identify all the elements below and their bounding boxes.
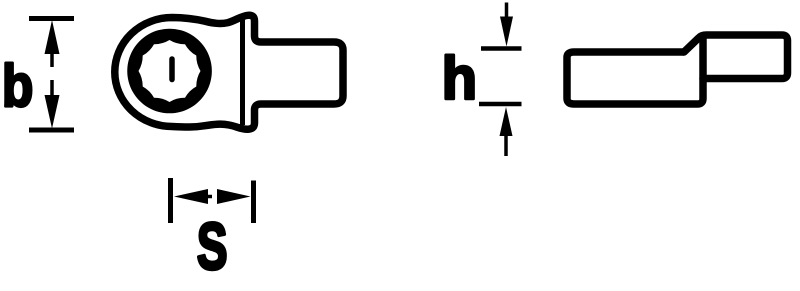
plate face line bbox=[240, 16, 245, 125]
side view ring end body bbox=[684, 35, 788, 79]
side view tang body bbox=[567, 36, 703, 104]
dimension h bottom stem bbox=[504, 136, 508, 156]
dimension h top arrowhead (down) bbox=[500, 17, 513, 47]
dimension b top tick bbox=[29, 16, 74, 21]
svg-text:h: h bbox=[442, 44, 477, 113]
dimension b bottom tick bbox=[29, 128, 74, 133]
center slot bbox=[169, 59, 175, 80]
dimension h top tick bbox=[481, 46, 522, 51]
svg-text:b: b bbox=[2, 53, 33, 119]
dimension S middle dashes bbox=[207, 195, 222, 199]
dimension S right arrowhead bbox=[217, 189, 251, 204]
dimension b upper stem bbox=[50, 50, 54, 67]
dimension S left tick bbox=[168, 178, 173, 223]
dimension h top stem bbox=[505, 3, 509, 21]
dimension b up arrowhead bbox=[45, 20, 60, 54]
dimension h bottom arrowhead (up) bbox=[500, 107, 513, 136]
svg-text:S: S bbox=[197, 211, 228, 284]
dimension h bottom tick bbox=[479, 102, 522, 107]
dimension S left arrowhead bbox=[174, 189, 208, 204]
dimension b lower stem bbox=[50, 80, 54, 98]
ring (12-point box profile) bbox=[127, 29, 212, 114]
ring head outline bbox=[115, 15, 343, 129]
dimension b down arrowhead bbox=[45, 95, 60, 129]
dimension S right tick bbox=[251, 181, 256, 224]
